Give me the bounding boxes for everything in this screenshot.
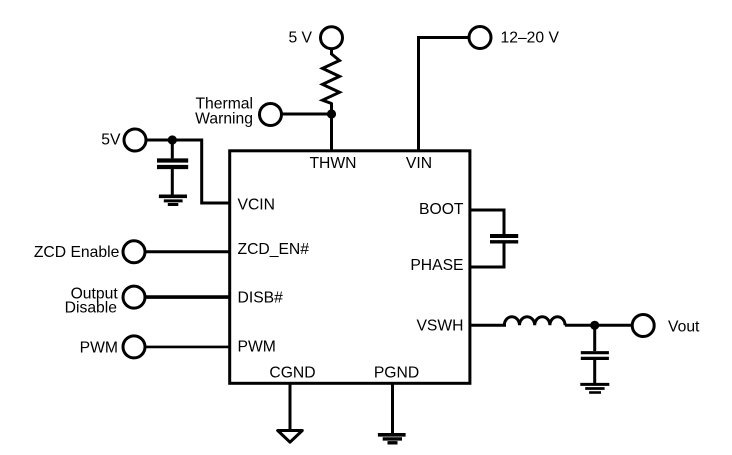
svg-text:CGND: CGND	[269, 365, 315, 382]
svg-text:PGND: PGND	[374, 365, 419, 382]
svg-text:ZCD Enable: ZCD Enable	[34, 244, 120, 261]
svg-text:Disable: Disable	[65, 300, 118, 317]
wire 5V terminal to resistor	[330, 49, 333, 55]
wire Output Disable to DISB# pin	[145, 295, 230, 299]
terminal Vout	[632, 315, 654, 337]
svg-text:12–20 V: 12–20 V	[501, 30, 560, 47]
node Vout junction	[590, 321, 599, 330]
svg-text:ZCD_EN#: ZCD_EN#	[238, 241, 310, 258]
IC U1 body	[230, 151, 470, 383]
svg-text:THWN: THWN	[309, 155, 356, 172]
svg-text:DISB#: DISB#	[238, 289, 284, 306]
svg-text:PWM: PWM	[80, 339, 118, 356]
wire CGND pin to signal ground	[289, 384, 292, 430]
terminal 5V (top)	[321, 27, 343, 49]
node THWN junction	[327, 109, 336, 118]
svg-text:5 V: 5 V	[288, 30, 312, 47]
node 5V/C1 junction	[168, 135, 177, 144]
svg-text:PWM: PWM	[238, 339, 276, 356]
label Thermal Warning	[195, 95, 253, 127]
capacitor C2 (bootstrap BOOT-PHASE)	[490, 236, 518, 242]
svg-text:5V: 5V	[101, 131, 121, 148]
wire PWM to PWM pin	[145, 346, 230, 349]
capacitor C3 (output filter)	[581, 325, 609, 383]
wire BOOT pin to bootstrap capacitor	[469, 210, 504, 235]
inductor L1	[504, 317, 565, 326]
svg-text:VCIN: VCIN	[238, 196, 275, 213]
wire VSWH pin to inductor	[469, 324, 506, 327]
resistor R1	[323, 54, 340, 104]
terminal PWM	[123, 336, 145, 358]
ground (earth) below C3	[580, 384, 609, 392]
terminal 12-20 V	[469, 27, 491, 49]
svg-text:PHASE: PHASE	[410, 257, 463, 274]
terminal Thermal Warning	[260, 104, 282, 126]
svg-text:Warning: Warning	[195, 111, 253, 128]
svg-text:VSWH: VSWH	[416, 317, 463, 334]
terminal 5V (left)	[124, 129, 146, 151]
capacitor C1 (VCIN decoupling)	[157, 140, 188, 195]
svg-text:VIN: VIN	[406, 155, 432, 172]
wire inductor to Vout node	[565, 324, 633, 327]
ground (signal, open triangle) CGND	[278, 431, 303, 443]
terminal Output Disable	[123, 286, 145, 308]
wire ZCD Enable to ZCD_EN# pin	[145, 250, 230, 253]
svg-text:BOOT: BOOT	[419, 201, 464, 218]
label Output Disable	[65, 285, 119, 316]
wire Thermal Warning to THWN node	[282, 113, 332, 116]
ground (earth) below C1	[159, 196, 187, 204]
wire bootstrap capacitor to PHASE pin	[469, 244, 504, 268]
wire resistor to THWN node	[330, 103, 333, 152]
wire 5V terminal to VCIN pin	[146, 140, 230, 203]
terminal ZCD Enable	[123, 241, 145, 263]
wire PGND pin to earth ground	[391, 384, 394, 434]
svg-text:Vout: Vout	[668, 319, 700, 336]
wire 12-20V terminal to VIN pin	[419, 38, 470, 152]
ground (earth) PGND	[378, 435, 406, 443]
